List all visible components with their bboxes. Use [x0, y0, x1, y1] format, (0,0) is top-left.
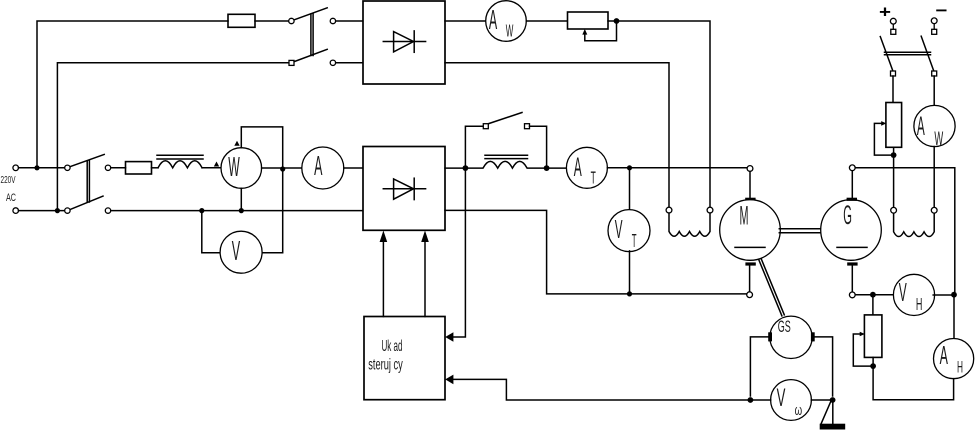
wire: row B from U1 to riser x=669 — [445, 63, 669, 207]
wire: bottom main row D — [111, 210, 363, 212]
ammeter A_H (load current) — [934, 339, 974, 379]
wire: voltage feedback from DC link to control unit — [453, 171, 465, 337]
inductor L1 (AC line reactor) coil — [158, 161, 202, 168]
wire: input top to switch S1 — [19, 167, 65, 169]
wire: - terminal stub — [933, 24, 935, 30]
switch S3 blade — [489, 113, 522, 124]
wire: U1 out row A to ammeter AW1 — [445, 20, 486, 22]
generator G field winding coil — [894, 213, 935, 236]
wire: gate drive line 1 to U2 — [382, 238, 384, 317]
svg-text:GS: GS — [778, 317, 791, 336]
svg-text:V: V — [777, 384, 786, 412]
switch S2 mechanical link — [310, 14, 312, 56]
wire: node to V_omega left — [753, 399, 770, 401]
switch S3 (choke bypass) left contact — [483, 124, 488, 129]
svg-text:ω: ω — [795, 403, 803, 419]
battery + contact square — [891, 29, 896, 34]
node: R3 bottom tie — [870, 363, 876, 369]
choke L2 coil — [468, 161, 544, 168]
wire: F2 to inductor L1 — [152, 167, 159, 169]
switch S2 (top DPST) left contacts — [289, 18, 294, 23]
svg-text:W: W — [228, 151, 240, 182]
svg-text:W: W — [506, 21, 514, 41]
tachogenerator GS left brush — [768, 332, 772, 341]
wire: GS right to ground node — [815, 337, 833, 396]
node: junction input bottom / riser B — [55, 208, 60, 213]
rheostat R1 wiper arm — [585, 24, 617, 41]
wire: A_W2 to G field right terminal — [933, 147, 935, 208]
wire: V_H to load top right node — [933, 294, 951, 296]
rectifier U1 box (uncontrolled, field supply) — [363, 1, 445, 84]
wire: S4 right to ammeter A_W2 — [933, 76, 935, 106]
generator G armature line — [837, 246, 867, 248]
terminal: AC input bottom — [13, 208, 19, 214]
wire: riser B up to row B — [57, 63, 288, 211]
node: V meter left tap on row D — [199, 208, 204, 213]
wire: S2 to rectifier U1 (row A) — [336, 20, 363, 22]
motor M armature line — [735, 246, 765, 248]
wire: + terminal stub — [892, 24, 894, 29]
wire: speed feedback from tacho to control unit — [453, 379, 750, 400]
switch S1 blade top — [70, 154, 104, 166]
motor M field winding coil — [669, 213, 710, 236]
wire: S1 to fuse F2 (main row) — [111, 167, 126, 169]
wire: G bottom brush to terminal — [851, 266, 853, 292]
wire: junction to voltmeter V_H — [876, 294, 894, 296]
wire: riser A up to top row — [37, 21, 228, 168]
shaft M-GS coupling — [759, 260, 782, 316]
generator G field winding right terminal — [931, 207, 937, 213]
node: DC link right junction — [544, 165, 550, 171]
motor M top terminal — [747, 166, 753, 172]
node: R2 bottom tie — [891, 152, 897, 158]
battery - contact square — [932, 29, 937, 34]
rheostat R2 (generator field) — [886, 103, 902, 148]
wire: W bottom terminal to row D — [240, 188, 242, 208]
node: tacho right junction — [830, 397, 836, 403]
switch S1 blade bottom — [70, 196, 103, 209]
switch S2 blade top — [294, 8, 327, 20]
svg-text:A: A — [489, 4, 497, 35]
switch S4 mechanical link — [885, 51, 931, 53]
rheostat R1 (field rheostat, top row) — [568, 12, 609, 29]
node: W voltage tap on main wire — [280, 166, 285, 171]
switch S4 bottom contact left — [891, 71, 896, 76]
ammeter A_T (armature current) — [566, 147, 607, 188]
wire: G positive rail to load — [855, 168, 955, 292]
battery - terminal — [931, 18, 937, 24]
svg-text:G: G — [843, 200, 852, 230]
motor M bottom brush bar — [745, 262, 755, 265]
wire: row A right segment down to M field right terminal — [608, 21, 710, 207]
switch S1 right contacts — [105, 165, 110, 170]
switch S4 (field supply DPST) blade left — [880, 37, 893, 71]
generator G field winding left terminal — [891, 207, 897, 213]
battery + terminal — [890, 18, 896, 24]
ground symbol — [832, 403, 834, 424]
wire: F1 to switch S2 — [255, 20, 289, 22]
wire: A to rectifier U2 — [344, 167, 363, 169]
diode symbol in U1 — [383, 41, 425, 43]
wattmeter W — [221, 148, 262, 189]
wire: U2 top output to DC link — [445, 167, 463, 169]
wire: choke to ammeter A_T — [550, 167, 567, 169]
ammeter A_W (field supply) — [486, 1, 527, 42]
wattmeter W polarity mark left — [214, 162, 219, 167]
motor M bottom terminal — [747, 292, 753, 298]
wire: V_T bottom to DC return — [629, 251, 631, 294]
switch S1 mechanical link — [86, 161, 88, 202]
rheostat R3 wiper arm — [853, 334, 870, 366]
wire: input bottom to switch S1 — [19, 210, 65, 212]
wire: G top brush to terminal — [851, 171, 853, 198]
svg-text:H: H — [957, 359, 963, 377]
node: R1 wiper tie to row A — [614, 18, 620, 24]
node 220V AC source label — [1, 174, 17, 204]
wire: L1 to wattmeter W — [202, 167, 221, 169]
node: tacho left junction — [748, 397, 754, 403]
node: V_T bottom junction — [627, 291, 632, 296]
svg-text:T: T — [632, 231, 637, 251]
wire: gate drive line 2 to U2 — [424, 238, 426, 317]
tachogenerator GS circle — [770, 316, 812, 358]
wire: W voltage coil top loop — [241, 127, 282, 166]
generator G bottom terminal — [849, 292, 855, 298]
voltmeter V_omega (tacho voltage) — [771, 380, 812, 421]
wire: tap down to voltmeter V right side — [262, 172, 283, 253]
svg-text:V: V — [232, 235, 241, 266]
wire: AW1 to rheostat R1 — [526, 20, 567, 22]
wire: R3 body bottom to node — [872, 357, 874, 363]
voltmeter V_H (load voltage) — [893, 274, 934, 315]
voltmeter V (line voltage) — [220, 231, 262, 273]
tachogenerator GS right brush — [811, 332, 815, 341]
rheostat R2 wiper arm — [874, 123, 890, 155]
control unit box (Uklad sterujacy) — [364, 317, 445, 400]
shaft M-G coupling — [779, 228, 820, 230]
motor M field winding left terminal — [666, 207, 672, 213]
wire: W to ammeter A — [262, 167, 302, 169]
switch S2 blade bottom — [294, 49, 327, 61]
motor M top brush bar — [745, 198, 755, 201]
svg-text:V: V — [899, 277, 907, 307]
svg-text:V: V — [615, 214, 623, 244]
svg-text:+: + — [879, 3, 891, 22]
wire: node down to ammeter A_H — [953, 298, 955, 339]
svg-text:A: A — [574, 152, 582, 182]
fuse F1 (top row) — [228, 14, 255, 27]
wire: S4 left to rheostat R2 — [892, 76, 894, 103]
svg-text:steruj cy: steruj cy — [368, 357, 403, 374]
svg-text:A: A — [940, 340, 949, 370]
svg-text:H: H — [916, 294, 923, 314]
node: W current coil bottom tap on row D — [239, 208, 244, 213]
ammeter A_W (generator field current) — [914, 105, 955, 146]
wire: bypass switch S3 left leg — [465, 126, 483, 165]
svg-text:W: W — [934, 129, 943, 150]
choke L2 core lines — [485, 154, 528, 156]
switch S4 bottom contact right — [932, 71, 937, 76]
wire: A_H bottom to load return — [873, 369, 954, 400]
node: load top left junction — [870, 292, 876, 298]
ammeter A (line current) — [302, 147, 344, 189]
terminal: AC input top — [13, 165, 19, 171]
svg-text:T: T — [591, 167, 596, 187]
wire: M bottom brush to terminal — [749, 266, 751, 292]
motor M armature circle — [720, 200, 781, 261]
rheostat R3 (load resistor) — [864, 315, 882, 358]
svg-text:A: A — [917, 111, 925, 141]
wire: R2 bottom to G field left terminal — [893, 147, 895, 207]
voltmeter V_T (armature voltage) — [608, 210, 650, 252]
node: V_T top junction — [627, 165, 632, 170]
wire: S2 to rectifier U1 (row B) — [336, 62, 363, 64]
svg-text:−: − — [936, 1, 948, 20]
svg-text:AC: AC — [6, 192, 16, 204]
node: load top right junction — [951, 292, 957, 298]
generator G top terminal — [849, 165, 855, 171]
switch S3 right contact — [525, 124, 530, 129]
switch S2 right contacts — [330, 18, 335, 23]
diode symbol in U2 — [383, 188, 425, 190]
wire: junction down to voltmeter V_T — [629, 170, 631, 210]
wattmeter W polarity mark top — [234, 141, 239, 146]
wire: left node down to rheostat R3 — [872, 298, 874, 315]
battery + terminal label — [879, 1, 948, 22]
wire: A_T to motor M top terminal — [607, 167, 747, 169]
svg-text:Uk ad: Uk ad — [382, 338, 403, 355]
wire: row D tap down to voltmeter V left — [202, 213, 221, 253]
generator G top brush bar — [847, 198, 857, 201]
wire: bypass switch S3 right leg — [530, 126, 547, 165]
wire: U2 bottom output (DC return) — [445, 210, 747, 294]
rectifier U2 box (controlled, armature supply) — [363, 147, 445, 231]
svg-text:M: M — [740, 201, 749, 231]
node: DC link left junction — [463, 165, 469, 171]
inductor L1 core lines — [157, 154, 203, 156]
generator G armature circle — [821, 200, 882, 261]
switch S4 blade right — [921, 36, 934, 71]
wire: V_omega right to ground node — [811, 399, 830, 401]
wire: G bottom terminal to load node — [855, 294, 870, 296]
wire: GS left to V_omega node — [750, 337, 768, 396]
svg-text:A: A — [314, 150, 322, 181]
generator G bottom brush bar — [847, 262, 857, 265]
fuse F2 (main row) — [126, 162, 152, 174]
node: junction input top / riser A — [34, 165, 39, 170]
svg-text:220V: 220V — [1, 174, 16, 186]
motor M field winding right terminal — [707, 207, 713, 213]
switch S1 (input DPST) left contacts — [65, 165, 70, 170]
wire: M top terminal to brush — [749, 171, 751, 197]
